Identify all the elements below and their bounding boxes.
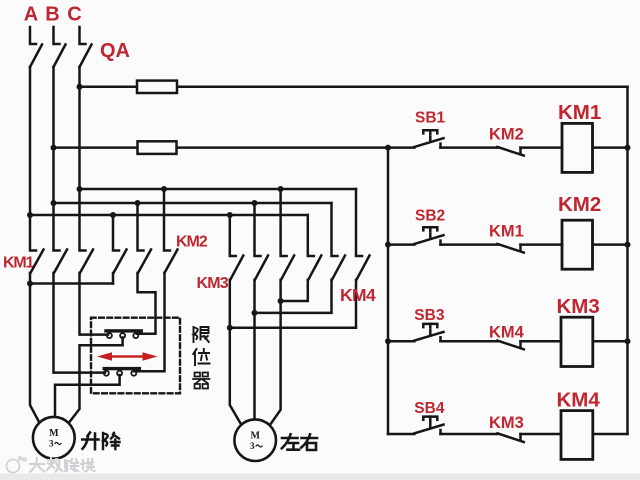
label 左 (zuo)	[282, 434, 299, 449]
KM3 pole3 stub	[281, 189, 287, 256]
svg-text:KM1: KM1	[3, 255, 34, 272]
node right bus rung2	[625, 242, 631, 248]
wire coil KM4 to right bus	[593, 433, 628, 436]
label 右 (you)	[301, 434, 317, 450]
NC contact KM3	[497, 433, 561, 442]
KM1 pole2 stub	[54, 203, 60, 251]
KM2 pole2 blade	[138, 250, 151, 273]
wire phase B vertical	[52, 67, 55, 203]
KM4 pole2 stub	[332, 203, 338, 256]
label 降 (jiang)	[103, 433, 120, 449]
KM2 pole1 stub	[113, 215, 119, 251]
KM3 pole1 blade	[230, 256, 243, 280]
node L2-KM3 junction	[252, 200, 258, 206]
label 器 (qi)	[193, 373, 210, 389]
KM3 pole2 blade	[255, 256, 268, 280]
KM2 pole3 wire to limit switch right	[134, 273, 165, 371]
wire control bus right	[626, 87, 629, 434]
KM4 pole1 stub	[308, 215, 314, 256]
KM3 pole3 wire down	[270, 280, 281, 426]
svg-text:M: M	[49, 428, 59, 439]
KM3 pole2 wire down	[253, 280, 256, 420]
svg-text:3: 3	[49, 439, 54, 449]
node L1-KM3 junction	[278, 186, 284, 192]
KM3 pole1 stub	[230, 215, 236, 256]
KM4 pole2 blade	[332, 256, 345, 280]
limit switch SQ1 bar	[104, 329, 143, 332]
KM3 pole2 stub	[255, 203, 261, 256]
node KM3/KM4 link1 junction	[227, 325, 233, 331]
node right bus rung1	[625, 145, 631, 151]
label 升 (sheng)	[82, 433, 98, 450]
watermark band	[0, 474, 640, 480]
svg-text:KM3: KM3	[197, 275, 229, 292]
node L3-KM2 junction	[110, 212, 116, 218]
node right bus rung3	[625, 338, 631, 344]
travel arrow (red, double-headed)	[97, 352, 158, 360]
KM1 pole2 blade	[54, 250, 67, 273]
svg-text:M: M	[250, 431, 260, 442]
KM1 pole3 wire to limit switch	[80, 273, 109, 335]
svg-text:3: 3	[250, 441, 255, 451]
pushbutton SB4	[388, 417, 497, 434]
pushbutton SB1	[388, 130, 497, 147]
QA pole A blade	[30, 45, 42, 68]
svg-text:SB2: SB2	[415, 208, 445, 225]
wire coil KM1 to right bus	[593, 146, 628, 149]
watermark logo	[7, 457, 27, 473]
node L1-KM2 junction	[161, 186, 167, 192]
svg-text:QA: QA	[100, 40, 130, 62]
watermark text	[30, 458, 95, 472]
wire SQ2 output to motor	[55, 375, 120, 417]
pushbutton SB3	[388, 324, 497, 341]
motor M1 circle	[33, 417, 75, 459]
SQ1 terminal 3	[133, 333, 138, 338]
KM3 pole1 wire down	[230, 280, 241, 425]
SQ1 terminal 2	[120, 333, 125, 338]
svg-text:KM3: KM3	[489, 414, 524, 432]
svg-text:C: C	[67, 4, 81, 26]
node B fuse junction	[51, 145, 57, 151]
QA pole B blade	[54, 45, 66, 68]
wire KM1p1-KM2p1 link	[30, 282, 113, 285]
svg-text:KM3: KM3	[557, 295, 600, 318]
wire KM3p2-KM4p2 link	[255, 280, 332, 313]
motor M2 circle	[234, 419, 276, 461]
KM4 pole1 blade	[308, 256, 321, 280]
coil KM4	[561, 411, 593, 460]
svg-text:KM4: KM4	[489, 323, 525, 341]
coil KM1	[562, 123, 593, 172]
wire control bus left	[387, 148, 390, 434]
NC contact KM2	[497, 147, 562, 156]
svg-text:SB3: SB3	[414, 307, 445, 324]
node KM3/KM4 link2 junction	[252, 310, 258, 316]
KM2 pole2 stub	[138, 203, 144, 251]
wire KM3p3-KM4p1 link	[281, 280, 308, 301]
limit switch SQ2 bar	[103, 367, 142, 370]
node left bus rung3	[385, 338, 391, 344]
coil KM3	[561, 317, 593, 366]
fuse FU1	[137, 81, 177, 93]
KM1 pole1 stub	[30, 215, 36, 251]
KM4 pole3 stub	[356, 189, 362, 256]
KM4 pole3 blade	[357, 256, 370, 280]
KM1 pole3 stub	[80, 189, 86, 251]
limit switch box (dashed)	[91, 318, 180, 394]
label 位 (wei)	[193, 349, 209, 365]
fuse FU2 line	[54, 146, 389, 149]
QA pole B terminal	[54, 27, 60, 44]
KM2 pole2 wire to limit switch right	[137, 273, 156, 334]
QA pole C terminal	[80, 27, 86, 44]
svg-text:KM2: KM2	[176, 234, 208, 251]
KM2 pole1 wire down	[112, 273, 115, 284]
node KM3/KM4 link3 junction	[278, 298, 284, 304]
svg-text:SB4: SB4	[414, 400, 445, 417]
NC contact KM4	[497, 341, 561, 350]
node KM1/KM2 link junction	[27, 281, 33, 287]
wire bus L3	[30, 214, 308, 217]
node L3-KM3 junction	[227, 212, 233, 218]
SQ2 terminal 2	[117, 371, 122, 376]
KM3 pole3 blade	[281, 256, 294, 280]
node L3-A junction	[27, 212, 33, 218]
KM1 pole1 blade	[31, 250, 44, 273]
svg-text:KM2: KM2	[489, 126, 524, 144]
wire phase A vertical	[29, 67, 32, 215]
QA pole C blade	[80, 45, 92, 68]
node left bus rung2	[385, 242, 391, 248]
KM2 pole3 blade	[165, 250, 178, 273]
KM1 pole1 wire down	[30, 273, 40, 423]
node L2-KM2 junction	[135, 200, 141, 206]
wire phase C vertical	[78, 67, 81, 189]
wire bus L1	[80, 188, 357, 191]
node L1-C junction	[77, 186, 83, 192]
svg-text:KM2: KM2	[558, 193, 601, 216]
wire coil KM2 to right bus	[593, 243, 628, 246]
KM2 pole1 blade	[114, 250, 127, 273]
pushbutton SB2	[388, 227, 497, 244]
NC contact KM1	[497, 244, 562, 253]
svg-text:B: B	[45, 4, 59, 26]
node left bus rung1	[385, 145, 391, 151]
svg-text:KM4: KM4	[557, 389, 601, 412]
wire SQ1 output to motor	[69, 338, 123, 424]
coil KM2	[562, 220, 593, 269]
svg-text:SB1: SB1	[415, 110, 446, 127]
svg-text:KM1: KM1	[558, 101, 601, 124]
SQ2 terminal 1	[104, 371, 109, 376]
node L2-B junction	[51, 200, 57, 206]
KM1 pole3 blade	[80, 250, 93, 273]
svg-text:KM1: KM1	[489, 223, 524, 241]
wire bus L2	[54, 202, 332, 205]
fuse FU2	[138, 141, 177, 154]
KM2 pole3 stub	[164, 189, 170, 251]
label 限 (xian)	[194, 327, 209, 342]
wire coil KM3 to right bus	[593, 340, 628, 343]
node C fuse junction	[77, 84, 83, 90]
wire KM3p1-KM4p3 link	[230, 280, 356, 328]
SQ2 terminal 3	[131, 371, 136, 376]
svg-text:A: A	[24, 4, 38, 26]
SQ1 terminal 1	[107, 333, 112, 338]
fuse FU1 line	[80, 85, 628, 88]
QA pole A terminal	[30, 27, 36, 44]
KM1 pole2 wire to limit switch	[54, 273, 106, 373]
svg-text:KM4: KM4	[340, 285, 376, 305]
